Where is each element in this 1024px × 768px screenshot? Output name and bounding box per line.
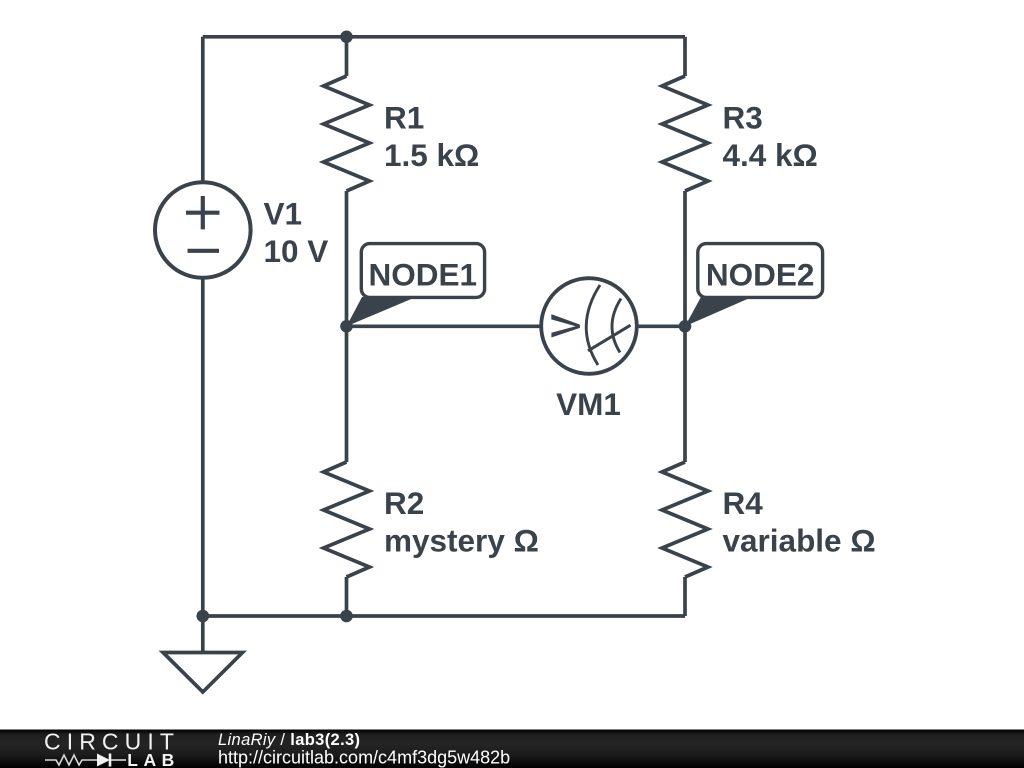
wire node1 to VM1 <box>347 324 543 328</box>
resistor R4 <box>662 462 708 577</box>
voltmeter VM1 <box>541 278 637 374</box>
resistor R1 <box>324 76 370 191</box>
wire R4 bottom lead <box>683 577 687 616</box>
node dot bottom (R2/bottom wire) <box>340 610 353 623</box>
wire R2 top lead <box>345 326 349 462</box>
node dot bottom-left <box>197 610 210 623</box>
wire bottom horizontal <box>203 614 685 618</box>
wire ground lead <box>201 616 205 653</box>
svg-text:mystery Ω: mystery Ω <box>384 523 539 559</box>
wire R1 bottom lead <box>345 191 349 326</box>
svg-text:1.5 kΩ: 1.5 kΩ <box>384 137 479 173</box>
svg-text:4.4 kΩ: 4.4 kΩ <box>723 137 818 173</box>
node NODE2 dot <box>679 320 692 333</box>
wire R2 bottom lead <box>345 577 349 616</box>
svg-text:variable Ω: variable Ω <box>723 523 876 559</box>
svg-text:R2: R2 <box>384 485 424 521</box>
footer bar <box>0 730 1024 768</box>
wire R1 top lead <box>345 37 349 76</box>
svg-text:R4: R4 <box>723 485 764 521</box>
svg-text:LinaRiy / lab3(2.3): LinaRiy / lab3(2.3) <box>218 731 360 749</box>
node dot top (R1/top wire) <box>340 31 353 44</box>
svg-text:NODE2: NODE2 <box>706 257 815 293</box>
node NODE1 callout <box>347 244 485 327</box>
voltage source V1 <box>155 182 251 278</box>
logo resistor zigzag <box>45 755 97 765</box>
svg-text:R1: R1 <box>384 100 424 136</box>
svg-text:http://circuitlab.com/c4mf3dg5: http://circuitlab.com/c4mf3dg5w482b <box>218 747 510 767</box>
logo diode <box>97 754 110 767</box>
node NODE1 dot <box>340 320 353 333</box>
svg-text:VM1: VM1 <box>556 386 621 422</box>
node NODE2 callout <box>685 244 823 327</box>
wire R3 bottom lead <box>683 191 687 326</box>
svg-text:V1: V1 <box>264 196 303 232</box>
wire R3 top lead <box>683 37 687 76</box>
svg-text:10 V: 10 V <box>264 233 329 269</box>
wire VM1 to node2 <box>636 324 686 328</box>
resistor R3 <box>662 76 708 191</box>
svg-text:NODE1: NODE1 <box>369 257 478 293</box>
resistor R2 <box>324 462 370 577</box>
wire top horizontal <box>203 35 685 39</box>
svg-text:R3: R3 <box>723 100 763 136</box>
wire V1 bottom lead <box>201 278 205 617</box>
wire R4 top lead <box>683 326 687 462</box>
wire V1 top lead <box>201 37 205 183</box>
ground <box>163 653 243 693</box>
svg-text:LAB: LAB <box>127 750 179 768</box>
